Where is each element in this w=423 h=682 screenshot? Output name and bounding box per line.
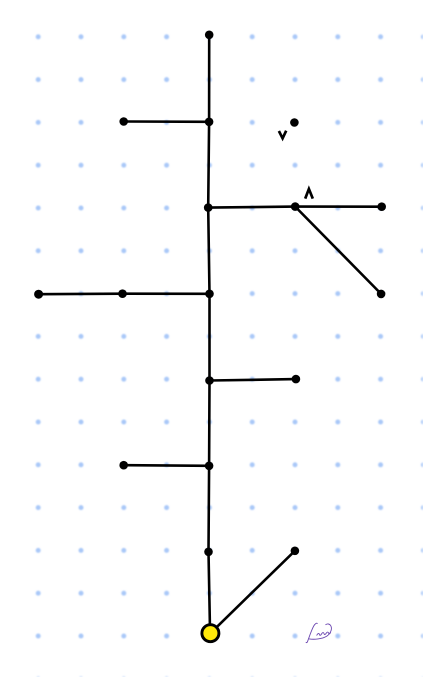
node row12 on trunk [204, 548, 213, 557]
wire branch row4 right [208, 207, 382, 208]
wire diagonal to root [217, 551, 295, 628]
junction row10 [205, 462, 214, 471]
signature [306, 623, 331, 642]
node row8 right end [292, 375, 301, 384]
junction row8 [205, 376, 214, 385]
node top [205, 31, 214, 40]
wire branch row6 left [39, 292, 210, 295]
node caret [291, 202, 300, 211]
wire branch row10 left [124, 464, 209, 467]
junction row2 [205, 118, 214, 127]
node root (yellow) [202, 625, 219, 642]
node diagonal end row6 [377, 290, 386, 299]
node row6 far left end [34, 290, 43, 299]
wire branch row2 left [124, 120, 209, 123]
junction row4 [204, 203, 213, 212]
node row12 diagonal start [291, 547, 300, 556]
wire diagonal row4 to row6 [295, 207, 381, 294]
wire main vertical trunk [208, 35, 210, 625]
node row2 left end [119, 117, 128, 126]
node row10 left end [119, 461, 128, 470]
node v (isolated) [290, 118, 299, 127]
junction row6 [205, 290, 214, 299]
label caret [305, 189, 313, 199]
wire branch row8 right [210, 379, 296, 380]
node row6 mid [118, 289, 127, 298]
node row4 right end [377, 202, 386, 211]
label v [279, 131, 286, 139]
